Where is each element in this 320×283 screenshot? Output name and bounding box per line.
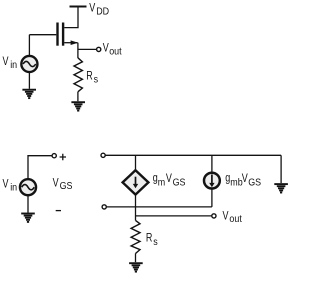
resistor Rs (bottom) [131,220,140,253]
wire gmb source top [211,155,213,172]
svg-text:GS: GS [248,177,261,189]
wire to Vout terminal [78,48,97,50]
ground (below Vin bottom) [21,214,35,222]
arrow inside diamond [135,177,137,184]
svg-text:V: V [166,172,173,186]
wire Vout (bottom) [136,215,212,217]
wire Vin to ground [28,72,30,89]
svg-text:V: V [3,55,10,69]
wire Vin to gate [28,35,30,57]
svg-text:out: out [109,46,122,58]
terminal plus [52,154,56,158]
wire diamond bottom through rails [135,195,137,221]
svg-text:R: R [146,231,153,245]
arrow inside gmb source [211,175,213,184]
arrowhead source [71,40,79,45]
label plus sign [60,154,66,160]
wire Vin up to plus terminal [28,156,52,179]
terminal top-left of model [101,153,105,157]
resistor Rs (top) [74,58,82,92]
current source gmbVGS circle [204,173,220,189]
svg-text:in: in [10,182,17,194]
svg-text:in: in [10,59,17,71]
source Vin (bottom) [20,179,36,195]
wire bottom rail [106,206,211,208]
wire right down to ground [280,155,282,183]
svg-text:mb: mb [230,177,242,189]
ground (below Vin top) [22,90,36,98]
wire Vin to ground (bottom) [27,196,29,213]
source Vin (top) [21,56,37,72]
transistor M1 gate bar [56,23,58,46]
wire source with arrow [64,42,77,44]
svg-text:DD: DD [96,6,109,18]
svg-text:V: V [53,176,60,190]
svg-text:out: out [229,213,242,225]
svg-text:GS: GS [173,177,186,189]
wire gmb source bottom [211,189,213,207]
svg-text:m: m [158,177,165,189]
terminal Vout (top) [97,47,101,51]
svg-text:s: s [94,74,99,86]
wire Rs to ground (bottom) [135,254,137,263]
svg-text:s: s [153,236,158,248]
label minus sign [56,210,61,212]
wire drain to VDD [64,7,78,28]
wire gate [29,34,56,36]
svg-text:V: V [223,209,230,223]
ground (below Rs bottom) [129,263,143,271]
ground (below Rs top) [71,102,85,110]
power rail VDD bar [70,6,87,8]
wire Rs to ground [77,92,79,101]
svg-text:GS: GS [60,180,73,192]
wire top rail [105,154,281,156]
ground (right) [274,184,288,192]
wire source down [77,43,79,58]
svg-text:V: V [3,177,10,191]
wire diamond top [135,155,137,170]
dependent source gmVGS diamond [123,170,149,194]
svg-text:V: V [89,1,96,15]
terminal bottom-left of model [102,205,106,209]
terminal Vout (bottom) [212,214,216,218]
transistor M1 channel bar [62,23,64,46]
svg-text:R: R [86,69,93,83]
